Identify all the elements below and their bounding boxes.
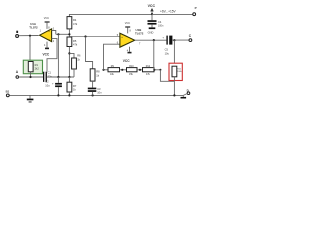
svg-text:VCC: VCC (125, 22, 130, 25)
svg-text:R7: R7 (73, 84, 77, 88)
resistor R9 (horizontal) (108, 65, 120, 76)
capacitor C3 (88, 87, 102, 95)
svg-text:R5: R5 (73, 39, 77, 43)
wire: output after C5 (172, 39, 189, 41)
node: bias bus tap at x=85 (84, 35, 86, 37)
node: R11 tap (173, 39, 175, 41)
svg-text:R12: R12 (146, 65, 151, 68)
svg-text:C2: C2 (45, 80, 49, 84)
node: VCC junction (151, 13, 153, 15)
wire: vertical from input node down to R1 (29, 36, 31, 62)
capacitor C1 (43, 70, 52, 81)
wire: drop to R11 (173, 40, 175, 66)
op-amp U1A label (29, 22, 38, 30)
resistor R4 (67, 17, 78, 29)
svg-text:100n: 100n (158, 25, 164, 28)
wire: drop to lower rail (160, 70, 174, 82)
resistor R12 (horizontal) (143, 65, 155, 76)
terminal A (16, 70, 19, 78)
wire: R4 bottom lead (68, 29, 70, 37)
resistor R6 (72, 54, 81, 69)
green highlight box (23, 60, 42, 73)
wire: feedback drop x=153.8 (153, 40, 155, 70)
VCC symbol above U1B (125, 22, 132, 33)
GND/VCC symbol below U1A (43, 42, 50, 57)
node: divider midpoint (68, 33, 70, 35)
resistor R1 (inside green box) (28, 62, 39, 72)
wire + node after R10 (137, 69, 143, 71)
svg-text:47k: 47k (73, 22, 78, 26)
svg-text:47k: 47k (73, 43, 78, 47)
node: R6 tap (68, 52, 70, 54)
wire: branch to R6 (69, 53, 74, 58)
svg-text:-: - (122, 43, 123, 47)
wire: to power terminal (152, 13, 193, 15)
ground symbol (left) (27, 95, 34, 102)
svg-text:R8: R8 (96, 70, 100, 74)
svg-text:TL072: TL072 (29, 26, 38, 30)
GND/VCC symbol below U1B (123, 47, 132, 63)
node: R7 gnd (68, 94, 70, 96)
svg-text:10n: 10n (97, 91, 102, 95)
capacitor C2 (polarized) (45, 77, 62, 95)
ground symbol below C4 (148, 27, 156, 34)
svg-text:10u: 10u (165, 51, 170, 55)
svg-text:10u: 10u (45, 83, 50, 87)
terminal IN (left, square mark + circle pin) (16, 31, 19, 38)
resistor R10 (horizontal) (127, 65, 138, 76)
svg-text:C1: C1 (48, 70, 52, 74)
wire: feedback bus y=69.8 (104, 69, 109, 71)
svg-text:B1: B1 (6, 89, 10, 93)
wire: R1 bottom lead (30, 72, 32, 77)
svg-text:22n: 22n (48, 74, 53, 78)
terminal + (power input) (193, 6, 197, 16)
svg-text:VCC: VCC (44, 17, 49, 20)
svg-text:GND: GND (148, 30, 154, 34)
wire: U1A -in stub (47, 39, 57, 72)
op-amp U1B (points right) (120, 33, 135, 47)
capacitor C4 (148, 20, 164, 27)
node: feedback tap on output (153, 39, 155, 41)
terminal C (output) (189, 34, 192, 41)
node: R1 junction (29, 76, 31, 78)
svg-text:VCC: VCC (43, 52, 50, 56)
svg-text:100k: 100k (177, 71, 181, 73)
svg-text:TL072: TL072 (135, 32, 144, 36)
wire: R11 bottom lead to ground bus (173, 77, 175, 96)
wire + node after R9 (120, 69, 127, 71)
red highlight box (169, 63, 182, 80)
wire: vertical x=85.5 down from bias bus (86, 37, 93, 69)
node: junction on input wire (29, 35, 31, 37)
node: C2 junction (57, 76, 59, 78)
node: C3 gnd (92, 94, 94, 96)
ground symbol (right end of bus) (181, 95, 187, 98)
wire: R5 bottom lead down to bias node (68, 47, 70, 78)
wire: VCC down to C4 (151, 14, 153, 20)
wire: A wire continues after C1 (47, 76, 74, 78)
op-amp U1B label (135, 28, 144, 36)
wire: bias column down to A wire (57, 34, 59, 77)
svg-text:P: P (195, 6, 197, 10)
svg-text:R1: R1 (35, 63, 39, 67)
node: bias rail junction (68, 76, 70, 78)
svg-text:R6: R6 (77, 54, 81, 58)
node: -in tap (102, 69, 104, 71)
resistor R5 (67, 37, 78, 47)
terminal B (ground, left) (6, 89, 10, 96)
svg-text:-: - (49, 37, 50, 41)
svg-text:VCC: VCC (148, 4, 156, 8)
wire: U1B output (135, 39, 167, 41)
svg-text:R4: R4 (73, 18, 77, 22)
wire: input wire to U1A output node (19, 35, 39, 37)
svg-text:C5: C5 (165, 48, 169, 52)
resistor R11 (inside red box) (172, 66, 182, 77)
wire: bias bus from U1A to divider (56, 33, 69, 35)
node: feedback drop lands here (153, 69, 155, 71)
VCC symbol (top right) (148, 4, 156, 15)
node: bias column junction (57, 33, 59, 35)
VCC symbol above U1A (T-bar) (44, 17, 50, 29)
op-amp U1A (points left) (40, 29, 52, 42)
wire: R6 bottom lead (73, 69, 75, 77)
svg-text:2k2: 2k2 (35, 66, 40, 70)
node: C2 gnd (57, 94, 59, 96)
wire after R12 (154, 69, 160, 71)
svg-text:+6V...+15V: +6V...+15V (160, 10, 177, 14)
svg-text:C4: C4 (158, 20, 162, 24)
wire: A horizontal wire (19, 76, 43, 78)
svg-text:VCC: VCC (123, 59, 130, 63)
svg-text:C3: C3 (97, 87, 101, 91)
wire: U1A +in stub down to bias bus (52, 31, 56, 35)
resistor R7 (below A wire) (67, 77, 77, 95)
terminal D (right ground) (183, 88, 190, 95)
ground bus (9, 94, 183, 96)
wire: R8 bottom to C3 (92, 81, 94, 88)
wire: bias bus to U1B (69, 36, 120, 38)
svg-text:R10: R10 (129, 65, 134, 68)
resistor R8 (vertical, x=92) (90, 69, 100, 81)
wire: top rail from R4 to VCC (69, 14, 152, 16)
capacitor C5 (polarized, output coupling) (162, 36, 172, 56)
wire: vertical to U1B -in (104, 44, 120, 70)
